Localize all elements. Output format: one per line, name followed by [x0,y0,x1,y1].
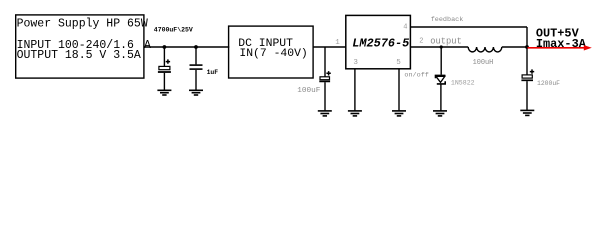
capacitor C3 100uF bottom plate [319,80,330,82]
svg-text:Imax-3A: Imax-3A [536,37,587,51]
capacitor C1 4700uF top plate [159,66,170,69]
diode D1 triangle apex down [436,76,445,82]
svg-text:Power Supply HP 65W: Power Supply HP 65W [17,17,148,30]
capacitor C4 1200uF wire bottom [526,81,528,110]
IC U1 LM2576-5 box [346,15,411,68]
diode D1 wire bottom [440,84,442,111]
node junction dot at diode [440,45,443,48]
capacitor C3 100uF plus sign [326,71,330,75]
svg-text:100uH: 100uH [473,59,494,67]
info box [16,15,144,78]
svg-text:4: 4 [403,23,407,31]
capacitor C4 1200uF top plate [522,75,532,78]
svg-text:1N5822: 1N5822 [451,80,475,87]
svg-text:3: 3 [353,59,358,67]
capacitor C3 100uF wire top [324,47,326,77]
ground for C3 [318,111,332,116]
ground for D1 [433,111,447,116]
pin 3 ground wire [354,69,356,111]
capacitor C1 4700uF wire bottom [163,73,165,90]
node junction dot at 4700uF [163,45,167,49]
diode D1 wire top [440,47,442,75]
feedback wire horizontal [410,26,527,28]
svg-text:1uF: 1uF [207,69,219,76]
capacitor C4 1200uF plus sign [530,69,534,73]
node junction dot at 1uF [194,45,198,49]
wire rail from info box to DC input box [144,46,229,48]
feedback wire vertical drop [526,27,528,47]
svg-text:2: 2 [419,37,423,45]
ground for C2 [189,90,203,95]
svg-text:1200uF: 1200uF [537,80,560,87]
capacitor C1 4700uF wire top [163,47,165,66]
capacitor C3 100uF top plate [320,77,330,80]
pin 5 ground wire [398,69,400,111]
capacitor C4 1200uF bottom plate [521,79,533,81]
inductor L1 100uH coil [468,47,502,52]
red arrow output [528,47,585,49]
svg-text:4700uF\25V: 4700uF\25V [154,27,193,34]
diode D1 cathode bar with right hook [437,81,445,84]
capacitor C2 1uF wire bottom [195,70,197,90]
capacitor C1 4700uF plus sign [166,59,170,63]
capacitor C3 100uF wire bottom [324,82,326,111]
svg-text:LM2576-5: LM2576-5 [352,37,409,51]
diode D1 top bar with left hook [436,75,446,78]
capacitor C1 4700uF bottom plate [158,71,171,73]
output wire from pin 2 to inductor [410,46,468,48]
wire rail from DC input box to IC [313,46,346,48]
svg-text:IN(7 -40V): IN(7 -40V) [239,48,307,60]
capacitor C2 1uF top plate [190,64,203,66]
ground for C4 [520,110,534,115]
capacitor C4 1200uF wire top [526,47,528,75]
svg-text:feedback: feedback [431,16,464,24]
ground for pin 3 [348,111,362,116]
ground for C1 [157,90,171,95]
svg-text:on/off: on/off [404,72,428,80]
red arrow head [584,45,592,50]
DC input box [229,26,314,78]
capacitor C2 1uF wire top [195,47,197,64]
ground for pin 5 [392,111,406,116]
svg-text:OUTPUT 18.5 V 3.5A: OUTPUT 18.5 V 3.5A [17,49,141,62]
svg-text:1: 1 [335,39,340,47]
svg-text:A: A [144,39,151,52]
wire from inductor to output node [502,46,527,48]
svg-text:output: output [430,37,462,47]
svg-text:100uF: 100uF [297,87,320,95]
svg-text:5: 5 [396,59,401,67]
node junction dot at output [525,45,529,49]
capacitor C2 1uF bottom plate [190,68,203,70]
